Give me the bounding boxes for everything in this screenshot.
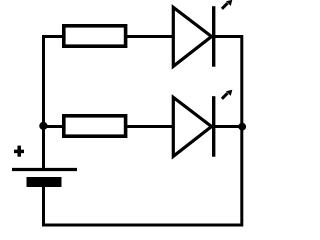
- LED D2 light-emission arrow: [222, 90, 232, 99]
- wire: left rail to resistor R2: [42, 125, 63, 128]
- resistor R1: [64, 26, 126, 46]
- wire: LED D2 cathode to right rail: [214, 125, 241, 128]
- wire: outer loop (branch1 to right rail, down, bottom wire, up to battery minus): [44, 37, 242, 226]
- battery BT1 negative plate (short thick): [27, 177, 62, 187]
- label: + polarity sign: [14, 146, 24, 157]
- wire: resistor R2 to LED D2: [126, 125, 174, 128]
- LED D2 triangle (anode): [173, 97, 211, 156]
- wire: LED D1 cathode to right rail: [214, 35, 241, 38]
- LED D2 cathode bar: [212, 96, 215, 157]
- node: junction dot right (branch 2 to right rail): [238, 123, 246, 131]
- battery BT1 positive plate (long): [12, 168, 77, 171]
- node: junction dot left (branch 2 tap): [39, 122, 47, 130]
- wire: left rail with top-left corner into branch 1: [44, 37, 63, 171]
- wire: resistor R1 to LED D1: [126, 35, 174, 38]
- LED D1 light-emission arrow: [222, 0, 232, 9]
- LED D1 cathode bar: [212, 6, 215, 66]
- resistor R2: [64, 116, 126, 136]
- LED D1 triangle (anode): [173, 7, 211, 66]
